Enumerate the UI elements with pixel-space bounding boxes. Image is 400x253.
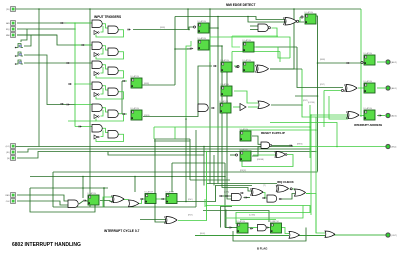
svg-text:D LATCH: D LATCH [198,20,207,23]
svg-text:NMI: NMI [6,35,10,37]
svg-text:(LO): (LO) [6,146,10,148]
svg-text:(RES): (RES) [144,115,150,117]
svg-text:(RES): (RES) [297,144,303,146]
svg-text:B FLAG: B FLAG [257,247,267,251]
svg-text:CLK: CLK [6,201,11,203]
svg-text:(OUT): (OUT) [391,235,397,237]
svg-text:(BLK): (BLK) [200,233,205,235]
svg-text:(COM): (COM) [249,215,255,217]
svg-text:(NMI): (NMI) [160,27,165,29]
svg-text:(AD2): (AD2) [391,61,397,64]
svg-text:RESET FLIPFLIP: RESET FLIPFLIP [261,131,285,135]
svg-text:(INT): (INT) [320,84,325,86]
svg-text:(T): (T) [263,185,266,187]
svg-text:6802 INTERRUPT HANDLING: 6802 INTERRUPT HANDLING [12,242,81,248]
svg-text:INTERRUPT CYCLE 0-7: INTERRUPT CYCLE 0-7 [104,229,140,233]
svg-text:IRQ CHECK: IRQ CHECK [277,180,295,184]
svg-text:(NMI): (NMI) [144,83,149,85]
svg-text:(AD1): (AD1) [391,87,397,90]
svg-text:IRQ: IRQ [6,29,10,31]
svg-text:(CLK): (CLK) [224,192,230,194]
svg-text:D LATCH: D LATCH [243,59,252,62]
svg-text:(S): (S) [7,158,10,160]
svg-text:(IRQ): (IRQ) [391,147,396,149]
svg-text:NMI EDGE DETECT: NMI EDGE DETECT [226,3,255,7]
svg-text:(NMI): (NMI) [320,59,325,61]
svg-text:(INT): (INT) [188,215,193,217]
svg-text:(T0): (T0) [6,9,10,11]
svg-text:(ICOM): (ICOM) [308,102,315,104]
svg-text:(IK): (IK) [6,152,10,154]
svg-text:(IRQ): (IRQ) [187,49,192,51]
svg-text:RES: RES [5,195,10,197]
svg-text:INPUT TRIGGERS: INPUT TRIGGERS [94,15,121,19]
svg-text:AIN: AIN [6,22,10,25]
svg-text:(INC): (INC) [188,199,193,201]
svg-text:D LATCH: D LATCH [221,59,230,62]
svg-text:INTERRUPT ADDRESS: INTERRUPT ADDRESS [354,123,382,127]
svg-text:(AD0): (AD0) [391,115,397,118]
svg-text:(IRQF): (IRQF) [240,170,246,172]
svg-text:D LATCH: D LATCH [243,39,252,42]
svg-text:D LATCH: D LATCH [198,37,207,40]
svg-text:D LATCH: D LATCH [364,52,373,55]
svg-text:(RESB): (RESB) [257,159,264,161]
